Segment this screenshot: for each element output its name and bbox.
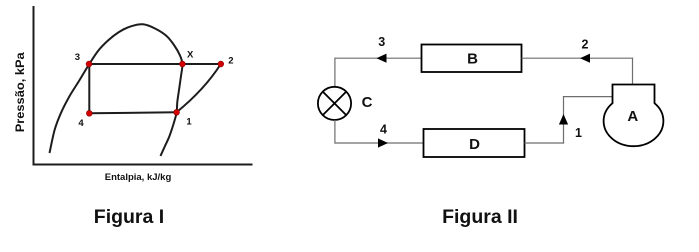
state point 2 (red dot) [218, 61, 224, 67]
bottom isobar line 4 - 1 [89, 112, 177, 113]
svg-text:3: 3 [378, 35, 385, 49]
state point X (red dot) [180, 61, 186, 67]
svg-text:2: 2 [228, 56, 233, 67]
saturation dome curve [50, 24, 183, 156]
wire: valve C bottom down to corner [334, 120, 336, 144]
vertical expansion line 3 - 4 [88, 64, 90, 113]
svg-text:2: 2 [582, 38, 589, 52]
wire: corner up to corner right of arrow [563, 96, 565, 144]
svg-text:Pressão, kPa: Pressão, kPa [15, 52, 27, 133]
arrow on wire 3 (pointing left) [377, 54, 387, 63]
svg-text:4: 4 [380, 123, 387, 137]
svg-text:Figura II: Figura II [442, 206, 518, 228]
y-axis (Pressao) [33, 6, 35, 165]
compression curve 1 - 2 [177, 64, 221, 112]
svg-text:X: X [187, 49, 194, 60]
svg-text:3: 3 [75, 52, 80, 63]
compressor A (dome-top body) [604, 85, 664, 147]
arrow on wire 1 (pointing up) [559, 114, 568, 125]
condenser block B [422, 45, 522, 73]
svg-text:B: B [467, 51, 478, 68]
wire: corner right into compressor A left [563, 96, 613, 98]
top isobar line 3 - X - 2 [89, 63, 221, 65]
wire: D right to corner [525, 142, 565, 144]
x-axis (Entalpia) [33, 164, 253, 166]
wire: B left to corner above C [335, 57, 422, 59]
wire: corner down to valve C top [334, 58, 336, 86]
svg-text:D: D [469, 136, 480, 153]
expansion valve C (crossed circle) [318, 87, 351, 120]
wire: B right to corner above A [522, 57, 634, 59]
svg-text:Figura I: Figura I [94, 206, 164, 228]
svg-text:Entalpia, kJ/kg: Entalpia, kJ/kg [105, 172, 172, 183]
evaporator block D [424, 129, 525, 157]
state point 4 (red dot) [86, 110, 92, 116]
arrow on wire 2 (pointing left) [580, 54, 590, 63]
wire: corner right to evaporator D [335, 142, 424, 144]
svg-text:1: 1 [575, 126, 582, 140]
state point 3 (red dot) [86, 61, 92, 67]
svg-text:A: A [627, 108, 638, 125]
wire: corner down to compressor A top [632, 58, 634, 85]
arrow on wire 4 (pointing right) [378, 138, 388, 147]
svg-text:C: C [362, 94, 373, 111]
state point 1 (red dot) [174, 109, 180, 115]
svg-text:4: 4 [78, 118, 84, 129]
svg-text:1: 1 [186, 117, 192, 128]
